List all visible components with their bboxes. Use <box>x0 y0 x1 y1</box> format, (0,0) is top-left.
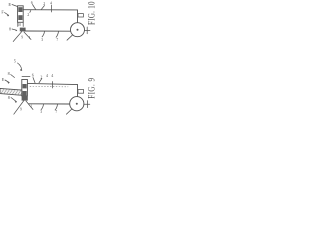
svg-text:8: 8 <box>8 71 10 76</box>
svg-text:E: E <box>8 2 11 7</box>
svg-text:9: 9 <box>20 107 22 111</box>
svg-text:5: 5 <box>14 59 16 64</box>
svg-text:7: 7 <box>55 110 57 114</box>
svg-text:FIG. 10: FIG. 10 <box>86 1 95 25</box>
svg-text:4: 4 <box>46 73 48 78</box>
svg-text:8: 8 <box>8 95 10 100</box>
svg-text:1: 1 <box>29 36 31 40</box>
svg-text:3: 3 <box>41 38 43 42</box>
svg-text:1: 1 <box>30 104 32 108</box>
svg-text:3: 3 <box>40 110 42 114</box>
svg-text:6: 6 <box>32 72 34 77</box>
svg-text:FIG. 9: FIG. 9 <box>86 78 95 99</box>
svg-text:6: 6 <box>31 0 33 5</box>
svg-text:4: 4 <box>50 1 52 6</box>
svg-text:8: 8 <box>9 26 11 31</box>
svg-text:2: 2 <box>27 12 29 17</box>
svg-text:10: 10 <box>17 23 21 27</box>
svg-text:4: 4 <box>51 73 53 78</box>
svg-text:2: 2 <box>43 1 45 6</box>
svg-text:9: 9 <box>21 36 23 40</box>
svg-text:E: E <box>2 77 5 82</box>
svg-text:7: 7 <box>56 38 58 42</box>
svg-text:2: 2 <box>40 75 42 80</box>
